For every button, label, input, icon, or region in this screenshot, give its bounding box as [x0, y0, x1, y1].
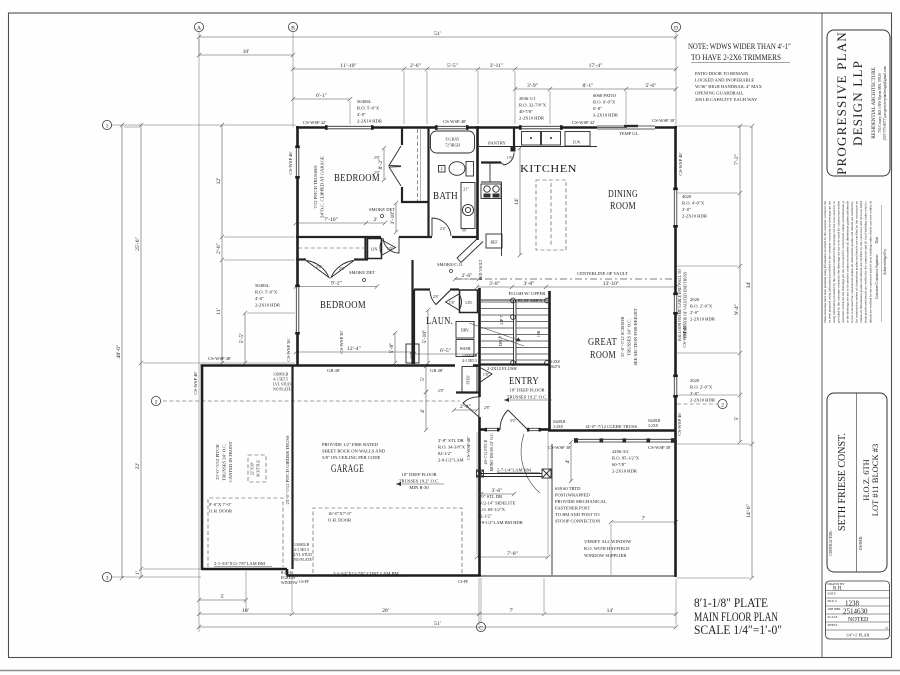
- svg-text:2-2X10 HDR: 2-2X10 HDR: [357, 119, 383, 124]
- dim hall 3-10: [390, 201, 398, 234]
- svg-text:CS-PF: CS-PF: [299, 580, 309, 584]
- svg-text:4-1.5E5.5: 4-1.5E5.5: [294, 548, 309, 552]
- svg-text:UNDERSIDE OF VAULTED END TRUSS: UNDERSIDE OF VAULTED END TRUSS: [684, 272, 688, 339]
- svg-text:23′-0″-7/12 PITCH GIRDER TRUSS: 23′-0″-7/12 PITCH GIRDER TRUSS: [285, 435, 290, 505]
- svg-text:TO BM AND POST TO: TO BM AND POST TO: [555, 512, 600, 517]
- window greatroom east 2020 upper: [674, 295, 677, 314]
- post note: [555, 486, 607, 524]
- svg-text:51′: 51′: [434, 621, 441, 627]
- svg-text:LVL STUD: LVL STUD: [273, 383, 291, 387]
- svg-text:2′8″: 2′8″: [438, 389, 445, 393]
- svg-text:2-2X10 HDR: 2-2X10 HDR: [612, 469, 638, 474]
- grid line 1: [112, 124, 297, 126]
- svg-text:4′: 4′: [565, 459, 571, 463]
- svg-text:5′-6″: 5′-6″: [645, 83, 657, 89]
- temp gl label: [619, 131, 640, 136]
- mono truss note rotated: [484, 433, 494, 472]
- grid bubble 2 left: [151, 396, 160, 405]
- dishwasher: [565, 132, 590, 147]
- svg-text:14′: 14′: [514, 198, 520, 205]
- door label laundry: [433, 295, 440, 299]
- window dining east 4020: [674, 190, 677, 227]
- egress window note: [281, 571, 298, 585]
- svg-text:provided by the customer contr: provided by the customer contractor the …: [836, 200, 840, 323]
- dim bed1 8-2: [378, 146, 386, 182]
- stairs treads: [481, 302, 548, 360]
- svg-text:2020: 2020: [690, 378, 700, 383]
- laundry north wall: [414, 288, 459, 290]
- svg-text:0448LB: 0448LB: [648, 419, 661, 423]
- svg-text:1300OLB: 1300OLB: [462, 354, 478, 358]
- exterior west wall: [296, 126, 299, 366]
- svg-text:11′: 11′: [216, 308, 222, 315]
- window bedroom2 west 5040SL: [296, 287, 299, 334]
- closet bottom wall: [401, 201, 429, 203]
- svg-text:JOB NBR: JOB NBR: [828, 607, 842, 611]
- svg-text:PROVIDE 1/2″ FIRE RATED: PROVIDE 1/2″ FIRE RATED: [322, 442, 379, 447]
- svg-text:4-1.5E5.5: 4-1.5E5.5: [462, 359, 477, 363]
- svg-text:SHEET ROCK ON WALLS AND: SHEET ROCK ON WALLS AND: [322, 449, 386, 454]
- svg-text:D: D: [674, 25, 678, 31]
- door label entry hall: [438, 389, 445, 393]
- svg-text:CS-PF: CS-PF: [458, 580, 468, 584]
- svg-text:2′8″: 2′8″: [484, 406, 491, 410]
- svg-text:2-2X10 HDR: 2-2X10 HDR: [255, 303, 281, 308]
- svg-text:82-1/2″: 82-1/2″: [438, 451, 452, 456]
- svg-text:200 LB CAPACITY EACH WAY: 200 LB CAPACITY EACH WAY: [695, 97, 758, 102]
- svg-text:CENTERLINE OF VAULT: CENTERLINE OF VAULT: [577, 271, 628, 276]
- svg-text:6′-1″: 6′-1″: [316, 93, 328, 99]
- dim bed1 7-10: [294, 217, 387, 225]
- title block disclaimer text: [823, 200, 887, 323]
- svg-text:CS-WSP 48″: CS-WSP 48″: [466, 436, 471, 460]
- stoop post: [542, 469, 551, 478]
- svg-text:22″X30″: 22″X30″: [251, 461, 255, 475]
- dim stoop 4: [565, 440, 573, 483]
- svg-text:A: A: [197, 25, 201, 31]
- svg-text:3′-8″: 3′-8″: [489, 281, 501, 287]
- grid bubble 3: [102, 572, 111, 581]
- svg-text:2514630: 2514630: [843, 608, 868, 616]
- svg-text:for construction unless all di: for construction unless all dimensions g…: [855, 201, 859, 323]
- window label 5040SL west: [255, 283, 281, 308]
- dn 7 label: [498, 335, 503, 346]
- svg-text:7′: 7′: [641, 516, 645, 522]
- patio door 6068: [597, 125, 655, 129]
- svg-text:PROVIDE MECHANICAL: PROVIDE MECHANICAL: [555, 499, 607, 504]
- svg-text:40-7/8″: 40-7/8″: [519, 109, 533, 114]
- extension lines bottom: [246, 432, 676, 625]
- extension lines left: [124, 127, 295, 569]
- svg-text:CANTED IN FRONT: CANTED IN FRONT: [228, 441, 233, 482]
- window label 2020 lower: [690, 378, 716, 403]
- svg-text:WINDOW SUPPLIER: WINDOW SUPPLIER: [584, 553, 627, 558]
- beam tag greatroom left: [553, 420, 566, 429]
- svg-text:D.W.: D.W.: [573, 141, 581, 145]
- window label 4020 dining: [682, 194, 708, 219]
- svg-text:82-1/2″: 82-1/2″: [478, 514, 492, 519]
- gb labels: [327, 368, 340, 373]
- bedroom2 north wall: [296, 258, 368, 260]
- bath toilet: [449, 162, 474, 177]
- svg-text:SCALE 1/4″=1′-0″: SCALE 1/4″=1′-0″: [694, 623, 782, 637]
- svg-text:5′-5″: 5′-5″: [447, 63, 459, 69]
- dim top 51ft: [197, 31, 678, 39]
- svg-text:4/0-7/12 PITCH: 4/0-7/12 PITCH: [484, 439, 488, 464]
- svg-text:GB 48′: GB 48′: [327, 368, 340, 373]
- grid bubble C: [476, 622, 485, 631]
- svg-text:24″O.C. CLIPPED AT GARAGE: 24″O.C. CLIPPED AT GARAGE: [320, 156, 325, 218]
- svg-text:2′-6″: 2′-6″: [461, 273, 473, 279]
- svg-text:STOOP CONNECTION: STOOP CONNECTION: [555, 519, 601, 524]
- svg-text:31′-0″-7/12 SCISSOR: 31′-0″-7/12 SCISSOR: [620, 316, 625, 358]
- room label bedroom 2: [320, 300, 366, 311]
- laundry west wall: [413, 290, 415, 365]
- svg-text:18″ DEEP FLOOR: 18″ DEEP FLOOR: [401, 472, 437, 477]
- svg-text:17′-4″: 17′-4″: [589, 63, 603, 69]
- window bedroom1 west: [296, 148, 299, 178]
- svg-text:12′-4″: 12′-4″: [347, 346, 361, 352]
- dim wc 5-8: [389, 331, 397, 365]
- svg-text:R.O. 2′-0″X: R.O. 2′-0″X: [690, 385, 713, 390]
- svg-text:re not to be used for construc: re not to be used for construction unles…: [850, 201, 854, 323]
- svg-text:GREAT: GREAT: [588, 337, 617, 348]
- svg-text:3-2X8: 3-2X8: [648, 424, 658, 428]
- svg-text:customer contractor the drawin: customer contractor the drawings are not…: [841, 201, 845, 323]
- bracing label cs-wsp 42 kitchen: [572, 120, 595, 125]
- stairs bottom wall 2-2X12 FLUSH: [480, 363, 550, 365]
- exterior east wall: [674, 126, 677, 577]
- svg-text:DATE: DATE: [828, 592, 836, 596]
- svg-text:EGRESS: EGRESS: [281, 576, 295, 580]
- svg-text:6′-8″: 6′-8″: [593, 106, 602, 111]
- svg-text:2-2X10 HDR: 2-2X10 HDR: [690, 398, 716, 403]
- kitchen angled counter: [457, 238, 483, 263]
- svg-text:2′6″: 2′6″: [374, 156, 381, 160]
- grid line B: [292, 32, 294, 128]
- svg-text:2-1-3/4″X11-7/8″ CONT LAM BM: 2-1-3/4″X11-7/8″ CONT LAM BM: [333, 571, 399, 576]
- lvl stud note bottom: [294, 543, 313, 562]
- refrigerator: [486, 234, 502, 248]
- bedroom1 closet partition dashed: [418, 129, 421, 201]
- svg-text:TRUSSES 24″ O.C.: TRUSSES 24″ O.C.: [222, 443, 227, 480]
- beam tag greatroom right: [648, 419, 661, 428]
- svg-text:5′: 5′: [420, 377, 426, 381]
- svg-text:SCUTTLE: SCUTTLE: [257, 459, 261, 476]
- svg-text:TRUSSES 24″ O.C.: TRUSSES 24″ O.C.: [627, 318, 632, 355]
- svg-text:3′-9″: 3′-9″: [527, 83, 539, 89]
- svg-text:3-2X10 HDR: 3-2X10 HDR: [593, 113, 619, 118]
- bracing east rotated mid: [682, 324, 687, 347]
- svg-text:or the drawings are not to be: or the drawings are not to be used for c…: [846, 200, 850, 323]
- svg-text:R.O. 4′-0″X: R.O. 4′-0″X: [682, 201, 705, 206]
- svg-text:DRY.: DRY.: [461, 329, 469, 333]
- svg-text:DINING: DINING: [608, 189, 638, 200]
- svg-text:1′6″: 1′6″: [507, 156, 514, 160]
- svg-text:PROGRESSIVE PLAN: PROGRESSIVE PLAN: [834, 31, 849, 175]
- svg-text:Acknowledged by: Acknowledged by: [883, 249, 887, 275]
- svg-text:O.H. DOOR: O.H. DOOR: [209, 509, 233, 514]
- entry south wall with front door: [480, 428, 550, 432]
- laundry linen closet: [460, 290, 478, 313]
- flush beam label: [487, 366, 517, 371]
- svg-text:8′1-1/8″ PLATE: 8′1-1/8″ PLATE: [694, 596, 768, 610]
- svg-text:2-9-1/2″LAM: 2-9-1/2″LAM: [438, 458, 464, 463]
- door label entry closet: [483, 373, 490, 377]
- garage east / entry west wall: [478, 365, 481, 577]
- dim g 5: [420, 364, 428, 394]
- svg-text:3′-10″: 3′-10″: [390, 210, 396, 224]
- svg-text:CS-WSP 48′: CS-WSP 48′: [208, 356, 231, 361]
- grid line 2 right dashed: [677, 403, 717, 405]
- svg-text:sions grades and details are v: sions grades and details are verified by…: [864, 200, 868, 323]
- bath tub FG BAY: [431, 131, 475, 153]
- dim top 6-1: [291, 93, 352, 101]
- svg-text:3′0″ STL DR: 3′0″ STL DR: [478, 494, 503, 499]
- svg-text:TO HAVE 2-2X6 TRIMMERS: TO HAVE 2-2X6 TRIMMERS: [691, 52, 781, 62]
- svg-text:NO PLATE: NO PLATE: [294, 558, 313, 562]
- grid bubble A: [194, 22, 203, 31]
- svg-text:10R: 10R: [537, 330, 541, 337]
- svg-text:BED VAULT: BED VAULT: [479, 259, 483, 280]
- svg-text:SEE SECTION FOR HEIGHT: SEE SECTION FOR HEIGHT: [633, 308, 638, 365]
- svg-text:13′-10″: 13′-10″: [603, 281, 620, 287]
- bedroom2 closet double doors: [306, 261, 354, 278]
- svg-text:5′-5″: 5′-5″: [239, 332, 245, 344]
- dim left 48-6: [116, 123, 124, 580]
- entry closet door 1'8": [479, 367, 492, 383]
- garage north / bedroom2 south wall: [201, 364, 481, 367]
- svg-text:LOCKED AND INOPERABLE: LOCKED AND INOPERABLE: [695, 78, 754, 83]
- exterior top wall: [296, 126, 677, 129]
- linen closet hall: [368, 239, 382, 259]
- svg-text:FLAT AREA: FLAT AREA: [518, 298, 543, 303]
- svg-text:8′-0″X 7′-0″: 8′-0″X 7′-0″: [209, 502, 232, 507]
- entry-garage door 2'8": [463, 397, 479, 417]
- svg-text:R.O. 32-7/8″X: R.O. 32-7/8″X: [519, 103, 547, 108]
- svg-text:2′-8″ STL DR: 2′-8″ STL DR: [438, 438, 465, 443]
- svg-text:FASTENER POST: FASTENER POST: [555, 506, 590, 511]
- room label entry: [504, 376, 552, 402]
- svg-text:(507-775-8077) progressiveplan: (507-775-8077) progressiveplandesign@gma…: [883, 66, 887, 141]
- svg-text:5′: 5′: [220, 594, 224, 600]
- room label bedroom 1: [334, 173, 380, 184]
- svg-text:2: 2: [721, 402, 724, 408]
- svg-text:LOT #11 BLOCK #3: LOT #11 BLOCK #3: [870, 444, 880, 517]
- kitchen island dashed: [536, 180, 566, 250]
- centerline of vault label: [577, 271, 628, 276]
- title block info table: [826, 581, 890, 639]
- garage floor truss note: [396, 472, 444, 490]
- dim bed2 12-4: [294, 346, 414, 354]
- svg-text:2′4″: 2′4″: [440, 227, 447, 231]
- svg-text:2′: 2′: [373, 217, 377, 223]
- svg-text:7′-8″: 7′-8″: [507, 551, 519, 557]
- dim g 4: [420, 390, 428, 432]
- window label 5040SL top: [357, 99, 383, 124]
- grid bubble D: [671, 22, 680, 31]
- svg-text:3: 3: [106, 575, 109, 581]
- svg-text:3-2X8: 3-2X8: [550, 360, 560, 364]
- bracing label cs-wsp 30 dining: [652, 118, 675, 123]
- svg-text:3′-11″: 3′-11″: [490, 63, 504, 69]
- bedroom1 closet bifold doors: [389, 146, 401, 186]
- svg-text:8′-1″: 8′-1″: [582, 83, 594, 89]
- svg-text:details are verified by the co: details are verified by the contractor a…: [868, 201, 872, 323]
- svg-text:B: B: [291, 25, 295, 31]
- door label closet bifold: [374, 156, 381, 175]
- lam bm label entry: [497, 468, 540, 473]
- svg-text:ve been prepared using informa: ve been prepared using information provi…: [827, 201, 831, 323]
- garage OH door 16x7 dashed: [313, 508, 462, 573]
- bedroom1 closet west wall: [401, 128, 403, 203]
- svg-text:2-2X12 FLUSH: 2-2X12 FLUSH: [487, 366, 517, 371]
- svg-text:3′-6″: 3′-6″: [491, 488, 503, 494]
- svg-text:2836-1/1: 2836-1/1: [519, 96, 536, 101]
- svg-text:14′: 14′: [607, 608, 614, 614]
- svg-text:2-2X10 HDR: 2-2X10 HDR: [682, 214, 708, 219]
- svg-text:CONTRACTOR:: CONTRACTOR:: [829, 530, 833, 555]
- svg-text:SETH FRIESE CONST.: SETH FRIESE CONST.: [837, 433, 848, 531]
- svg-text:F.G.BAY: F.G.BAY: [445, 138, 459, 142]
- svg-text:5′-10″: 5′-10″: [422, 329, 428, 343]
- room label great room: [588, 337, 617, 361]
- drawing title: [694, 596, 782, 637]
- svg-text:SCALE: SCALE: [828, 615, 838, 619]
- svg-text:638.60 TRTD: 638.60 TRTD: [555, 486, 581, 491]
- bedroom1 south wall: [296, 236, 479, 238]
- bedroom1 truss note rotated: [313, 156, 325, 218]
- washer: [456, 340, 474, 357]
- door label laundry linen: [449, 301, 456, 305]
- stoop west edge: [551, 444, 553, 575]
- svg-text:0448LB: 0448LB: [553, 420, 566, 424]
- window kitchen sink: [521, 126, 562, 129]
- svg-text:PANTRY: PANTRY: [488, 141, 506, 146]
- svg-text:GARAGE: GARAGE: [331, 463, 364, 475]
- svg-text:4020: 4020: [682, 194, 692, 199]
- svg-text:4-1.5E5.5: 4-1.5E5.5: [273, 378, 288, 382]
- great room west wall: [548, 291, 551, 431]
- cs-pf labels: [299, 580, 309, 584]
- garage girder truss note rotated: [285, 435, 290, 505]
- svg-text:1300OLB: 1300OLB: [273, 373, 289, 377]
- bed vault rotated: [479, 259, 483, 280]
- window bedroom1 top 5040SL: [327, 126, 373, 129]
- porch beam: [477, 470, 543, 477]
- svg-text:These drawings have been prepa: These drawings have been prepared using …: [823, 200, 827, 323]
- title block owner box: [827, 393, 887, 572]
- dim top row4: [513, 83, 678, 91]
- garage south wall right with step: [297, 574, 481, 577]
- svg-text:7′: 7′: [509, 608, 513, 614]
- svg-text:STEP: STEP: [467, 376, 471, 385]
- stair rise rotated: [537, 330, 541, 337]
- svg-text:SMOKE DET: SMOKE DET: [369, 207, 395, 212]
- bracing label cs-wsp 42 bedroom: [303, 120, 326, 125]
- svg-text:2647A: 2647A: [550, 365, 561, 369]
- svg-text:CS-WSP 48′: CS-WSP 48′: [678, 152, 683, 175]
- bedroom2 east wall: [411, 260, 413, 364]
- svg-text:WASH: WASH: [460, 347, 471, 351]
- svg-text:22′: 22′: [135, 463, 141, 470]
- room label bath: [433, 191, 458, 202]
- svg-text:LIN.: LIN.: [371, 248, 378, 252]
- svg-text:NOTE: WDWS WIDER THAN 4′-1″: NOTE: WDWS WIDER THAN 4′-1″: [688, 41, 791, 51]
- svg-text:21″: 21″: [463, 188, 469, 192]
- centerline of vault dashed: [455, 278, 675, 280]
- svg-text:3′-8″: 3′-8″: [523, 281, 535, 287]
- dim stoop 7ft: [609, 516, 678, 524]
- window jambs top wall: [325, 125, 563, 130]
- smoke co hall: [437, 262, 463, 273]
- garage landing step: [462, 367, 477, 393]
- svg-text:DESIGN LLP: DESIGN LLP: [850, 60, 865, 146]
- svg-text:18″ DEEP FLOOR: 18″ DEEP FLOOR: [509, 388, 545, 393]
- porch front edge: [481, 575, 676, 577]
- svg-text:14′-0″-7/12 CLERE TRUSS: 14′-0″-7/12 CLERE TRUSS: [585, 424, 638, 429]
- svg-text:1238: 1238: [845, 600, 860, 608]
- svg-text:7/12 PITCH TRUSSES: 7/12 PITCH TRUSSES: [313, 165, 318, 209]
- room label laundry: [426, 316, 453, 327]
- svg-text:48′-6″: 48′-6″: [116, 344, 122, 358]
- extension lines top: [199, 39, 626, 124]
- beam tag stairs: [550, 360, 561, 369]
- smoke det bedroom2: [349, 270, 375, 282]
- dim hall 2-6: [453, 273, 481, 281]
- svg-text:66″: 66″: [462, 229, 468, 233]
- bedroom1 door leaf: [383, 237, 399, 253]
- svg-text:R.O. 34-3/8″X: R.O. 34-3/8″X: [438, 445, 466, 450]
- svg-text:2456-3/2: 2456-3/2: [612, 449, 629, 454]
- lvl stud note top: [273, 373, 292, 392]
- bath door 2'4": [432, 218, 451, 236]
- kitchen sink counter: [479, 132, 597, 147]
- svg-text:UP 7: UP 7: [499, 315, 504, 325]
- svg-text:Customer/Contractor Signature: Customer/Contractor Signature Date: [875, 236, 879, 299]
- svg-text:2′-6″: 2′-6″: [216, 242, 222, 254]
- window bath top 2836: [437, 126, 468, 129]
- svg-text:9′-2″: 9′-2″: [331, 280, 343, 286]
- svg-text:R.O. 2′-0″X: R.O. 2′-0″X: [690, 304, 713, 309]
- svg-text:2′-0″: 2′-0″: [682, 207, 691, 212]
- room label dining room: [608, 189, 638, 212]
- svg-text:FLUSH W/ UPPER: FLUSH W/ UPPER: [509, 291, 547, 296]
- dim left 25-6 22 1: [135, 123, 143, 579]
- svg-text:2-7-1/4″LAM BM: 2-7-1/4″LAM BM: [497, 468, 531, 473]
- svg-text:OPENING GUARDRAIL.: OPENING GUARDRAIL.: [695, 91, 745, 96]
- bracing east rotated upper: [678, 152, 683, 175]
- svg-text:34′: 34′: [746, 282, 752, 289]
- linen hall door: [380, 240, 396, 255]
- dim top row3: [291, 63, 678, 71]
- bracing rotated west bedroom1: [288, 151, 293, 174]
- bracing sunroom left: [548, 445, 571, 450]
- svg-text:TRUSSES 19.2″ O.C.: TRUSSES 19.2″ O.C.: [399, 479, 440, 484]
- bracing east rotated lower: [677, 412, 682, 435]
- svg-text:R.O. 69-1/2″X: R.O. 69-1/2″X: [478, 507, 506, 512]
- svg-text:CS-WSP 30′: CS-WSP 30′: [548, 445, 571, 450]
- svg-text:1′6″: 1′6″: [387, 247, 394, 251]
- lam beam label garage left: [214, 561, 272, 567]
- svg-text:NO PLATE: NO PLATE: [273, 388, 292, 392]
- svg-text:5/8″ ON CEILING PER CODE: 5/8″ ON CEILING PER CODE: [322, 455, 381, 460]
- svg-text:LIN.: LIN.: [465, 301, 472, 305]
- svg-text:20′: 20′: [382, 608, 389, 614]
- svg-text:RESIDENTIAL ARCHITECTURE: RESIDENTIAL ARCHITECTURE: [872, 67, 877, 138]
- laundry east wall: [478, 288, 481, 365]
- dim laundry 6-5: [412, 348, 479, 356]
